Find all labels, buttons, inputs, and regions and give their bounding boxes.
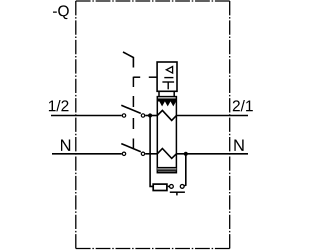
wire L right (terminal 2/1) [176, 115, 248, 117]
terminal label N (left) [61, 140, 70, 151]
sensor body (toroid rectangle) [157, 97, 176, 173]
mechanical linkage (vertical dashed) [132, 77, 134, 149]
label -Q [53, 5, 69, 19]
wire L from contact to sensor [145, 115, 157, 117]
primary conductor L through sensor (zigzag) [157, 110, 176, 120]
terminal label 2/1 [233, 100, 253, 111]
junction node N / test return [184, 152, 188, 156]
wire L left (terminal 1/2) [51, 115, 122, 117]
test resistor [153, 184, 167, 190]
test circuit return wire (up to N junction) [184, 154, 186, 186]
enclosure border (dash-dot outline of device -Q) [76, 1, 230, 249]
trip unit symbol: triangle flag [166, 67, 172, 74]
test button actuator [170, 192, 185, 195]
coupling neck between trip unit and sensor [159, 91, 174, 96]
switch contact pole N [121, 144, 144, 156]
winding teeth (solid triangles) [159, 101, 176, 106]
wire N from contact to sensor [145, 153, 157, 155]
manual operating lever [123, 52, 133, 68]
trip unit (residual current release) box [157, 62, 177, 91]
core band top (hatched) [157, 98, 176, 101]
terminal label 1/2 [49, 100, 69, 111]
junction node L / test tap [148, 113, 152, 117]
wire resistor to test button [168, 185, 170, 187]
mechanical linkage to trip unit (horizontal dashed) [133, 76, 157, 78]
terminal label N (right) [234, 140, 243, 151]
switch contact pole L [121, 105, 144, 117]
trip unit symbol: T [162, 82, 174, 89]
trip unit symbol: bar [164, 77, 173, 79]
wire N left (terminal N) [52, 153, 122, 155]
core band bottom (hatched) [157, 167, 176, 172]
test button contacts [170, 185, 185, 189]
primary conductor N through sensor (zigzag) [157, 149, 176, 159]
test circuit tap wire (from L junction down) [150, 116, 153, 187]
wire N right (terminal N) [176, 153, 248, 155]
